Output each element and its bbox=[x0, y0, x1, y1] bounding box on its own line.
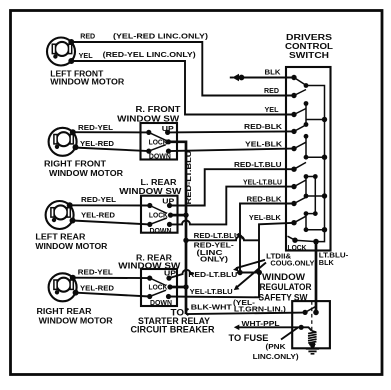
svg-text:COUG.ONLY: COUG.ONLY bbox=[270, 261, 314, 268]
SW1 lower contacts bbox=[146, 149, 151, 154]
U1 LOCK contact dot bbox=[313, 239, 319, 245]
wire RED-BLK row 8 riser to SW3 UP bbox=[240, 204, 292, 273]
drivers control switch box U1 bbox=[286, 67, 331, 251]
wire M3 RED-YEL to SW2 bbox=[70, 204, 150, 206]
junction dot SW3 lock bbox=[183, 284, 188, 289]
SW2 upper arm bbox=[150, 206, 167, 214]
arrowhead on WHT-PPL left end bbox=[234, 325, 240, 331]
ground symbol bbox=[309, 344, 316, 348]
svg-text:REGULATOR: REGULATOR bbox=[260, 282, 312, 292]
wire WHT-PPL to fuse bbox=[237, 326, 301, 328]
switch SW1 R. FRONT WINDOW SW box bbox=[141, 123, 178, 160]
svg-text:WINDOW MOTOR: WINDOW MOTOR bbox=[39, 315, 114, 325]
svg-text:RED-YEL: RED-YEL bbox=[78, 268, 113, 277]
wire RED-LT.BLU row to SW2 UP contact bbox=[170, 169, 292, 205]
svg-text:DOWN: DOWN bbox=[150, 300, 172, 307]
svg-text:RED-YEL: RED-YEL bbox=[81, 195, 116, 204]
wire YEL-LT.BLU row to SW2 DOWN contact with hop over lock bus bbox=[170, 187, 292, 225]
junction dots on SW3 UP wire bbox=[237, 270, 242, 275]
svg-text:WINDOW: WINDOW bbox=[262, 272, 305, 282]
svg-text:(RED-YEL LINC.ONLY): (RED-YEL LINC.ONLY) bbox=[103, 50, 197, 59]
svg-text:YEL-RED: YEL-RED bbox=[81, 210, 116, 219]
svg-text:YEL-RED: YEL-RED bbox=[80, 284, 115, 293]
motor M4 right rear window motor bbox=[49, 273, 79, 301]
wire YEL-BLK row from SW1 DOWN contact bbox=[169, 149, 292, 152]
safety switch contact dot bbox=[303, 310, 308, 315]
svg-text:RED-BLK: RED-BLK bbox=[244, 122, 283, 131]
svg-text:LINC.ONLY): LINC.ONLY) bbox=[253, 352, 300, 361]
terminal dot in safety switch bbox=[313, 310, 319, 316]
svg-text:SWITCH: SWITCH bbox=[289, 50, 329, 60]
svg-text:RED-LT.BLU: RED-LT.BLU bbox=[194, 231, 240, 240]
svg-text:YEL-LT.BLU: YEL-LT.BLU bbox=[190, 287, 233, 296]
svg-text:(PNK: (PNK bbox=[266, 342, 287, 351]
SW3 lower contacts bbox=[147, 294, 152, 299]
svg-text:RED-YEL: RED-YEL bbox=[78, 123, 113, 132]
coil L1 in safety switch bbox=[308, 331, 317, 345]
svg-text:WINDOW MOTOR: WINDOW MOTOR bbox=[35, 241, 108, 251]
leader hook from label to tap wire bbox=[237, 235, 243, 240]
U1 switch arms rows 1-9 bbox=[294, 78, 306, 223]
junction dot SW2 lock bbox=[183, 212, 188, 217]
wire LT.BLU-BLK from LOCK to safety switch bbox=[315, 242, 318, 313]
SW3 lock contact bbox=[167, 284, 172, 289]
svg-text:(YEL-RED LINC.ONLY): (YEL-RED LINC.ONLY) bbox=[113, 31, 209, 40]
wire from contact to coil bbox=[301, 327, 312, 331]
SW1 upper contacts bbox=[146, 130, 151, 135]
motor M3 left rear window motor bbox=[46, 201, 76, 229]
svg-text:RED-LT.BLU: RED-LT.BLU bbox=[234, 160, 282, 169]
svg-text:WHT-PPL: WHT-PPL bbox=[242, 319, 280, 328]
U1 middle link wires bbox=[306, 104, 315, 230]
wire SW3 LOCK stub to bus bbox=[170, 286, 186, 289]
svg-text:YEL: YEL bbox=[79, 51, 93, 60]
U1 left contact dots rows 1-9 bbox=[291, 75, 296, 226]
svg-text:CIRCUIT BREAKER: CIRCUIT BREAKER bbox=[131, 324, 215, 334]
svg-text:BLK: BLK bbox=[265, 67, 282, 76]
svg-text:RED-LT.BLU: RED-LT.BLU bbox=[188, 270, 237, 279]
wire M3 YEL-RED to SW2 bbox=[73, 221, 150, 225]
SW1 upper arm bbox=[149, 132, 166, 140]
U1 right bus vertical bbox=[306, 86, 325, 242]
leader from PNK note to wire bbox=[281, 328, 298, 340]
safety switch S1 box bbox=[292, 301, 330, 348]
SW1 lower arm bbox=[149, 145, 166, 151]
wire RED-BLK row from SW1 UP contact bbox=[168, 131, 292, 132]
connector arrow on BLK wire bbox=[239, 75, 245, 81]
motor M2 right front window motor bbox=[49, 128, 79, 156]
wire YEL-BLK row 9 riser to SW3 DOWN bbox=[169, 223, 292, 297]
svg-text:TO FUSE: TO FUSE bbox=[229, 333, 269, 343]
svg-text:YEL: YEL bbox=[265, 105, 279, 114]
wire M4 RED-YEL to SW3 bbox=[72, 277, 150, 279]
svg-text:WINDOW MOTOR: WINDOW MOTOR bbox=[49, 168, 124, 178]
wire SW2 LOCK stub to bus bbox=[171, 214, 187, 217]
svg-text:RED: RED bbox=[264, 86, 280, 95]
safety switch arm bbox=[305, 306, 316, 312]
wire BLK-WHT from bus to safety switch bbox=[186, 313, 305, 315]
SW2 upper contacts bbox=[147, 203, 152, 208]
wire M2 YEL-RED to SW1 bbox=[74, 148, 149, 152]
wire YEL from M1 to drivers switch YEL row bbox=[72, 61, 292, 115]
leader arrow to YEL-LT.BLU wire bbox=[237, 263, 267, 288]
svg-text:WINDOW SW: WINDOW SW bbox=[118, 260, 181, 270]
svg-text:BLK: BLK bbox=[319, 258, 335, 267]
svg-text:SAFETY SW: SAFETY SW bbox=[259, 292, 308, 302]
svg-text:DOWN: DOWN bbox=[150, 228, 172, 235]
wire M2 RED-YEL to SW1 bbox=[71, 131, 149, 133]
wire lock bus from SW1 LOCK down to BLK-WHT junction bbox=[169, 142, 187, 314]
SW2 lower arm bbox=[150, 218, 167, 224]
contact dot WHT-PPL bbox=[299, 325, 304, 330]
U1 bus link wires bbox=[306, 120, 325, 230]
wire M4 YEL-RED to SW3 bbox=[74, 293, 150, 297]
wire SW3 UP with hop over lock bus bbox=[169, 270, 194, 278]
SW3 lower arm bbox=[150, 290, 166, 296]
svg-text:ONLY): ONLY) bbox=[200, 254, 229, 263]
wire RED from M1 to drivers switch RED row bbox=[71, 42, 292, 96]
svg-text:RED-BLK: RED-BLK bbox=[247, 195, 283, 204]
svg-text:WINDOW MOTOR: WINDOW MOTOR bbox=[50, 76, 125, 86]
svg-text:DOWN: DOWN bbox=[149, 153, 171, 160]
svg-text:BLK-WHT: BLK-WHT bbox=[191, 303, 232, 312]
svg-text:YEL-BLK: YEL-BLK bbox=[245, 140, 283, 149]
SW3 upper contacts bbox=[147, 276, 152, 281]
svg-text:WINDOW SW: WINDOW SW bbox=[117, 113, 180, 123]
wire BLK feed with connector bbox=[242, 77, 292, 79]
U1 middle contact dots bbox=[304, 83, 318, 232]
SW1 lock contact bbox=[166, 139, 171, 144]
switch SW2 L. REAR WINDOW SW box bbox=[141, 196, 178, 233]
wire RED-LT.BLU tap from bus with hop over riser bbox=[186, 236, 259, 240]
svg-text:YEL-BLK: YEL-BLK bbox=[249, 213, 282, 222]
svg-text:YEL-RED: YEL-RED bbox=[80, 139, 115, 148]
svg-text:WINDOW SW: WINDOW SW bbox=[119, 186, 182, 196]
safety switch mechanical dashed link bbox=[311, 301, 313, 330]
SW2 lower contacts bbox=[147, 222, 152, 227]
svg-text:RED-LT.BLU: RED-LT.BLU bbox=[184, 151, 193, 205]
svg-text:LOCK: LOCK bbox=[288, 245, 307, 252]
svg-text:YEL-LT.BLU: YEL-LT.BLU bbox=[243, 177, 282, 186]
junction dot on bus at tap bbox=[183, 238, 188, 243]
svg-text:RED: RED bbox=[80, 32, 96, 41]
U1 bus junction dots bbox=[322, 117, 327, 233]
svg-text:LT.GRN-LIN.): LT.GRN-LIN.) bbox=[234, 305, 287, 314]
motor M1 left front window motor bbox=[47, 38, 75, 66]
switch SW3 R. REAR WINDOW SW box bbox=[141, 269, 177, 306]
leader arrow to RED-LT.BLU wire bbox=[236, 260, 265, 268]
U1 lock arm bbox=[288, 236, 296, 240]
SW2 lock contact bbox=[168, 213, 173, 218]
svg-text:LEFT REAR: LEFT REAR bbox=[35, 232, 86, 242]
SW3 upper arm bbox=[150, 278, 166, 285]
